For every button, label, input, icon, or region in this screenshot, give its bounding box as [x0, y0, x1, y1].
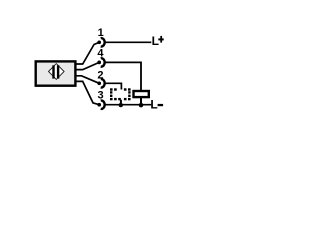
svg-text:L: L [150, 98, 157, 112]
load R2 (dashed optional rectangle) [110, 88, 131, 100]
svg-text:L: L [152, 34, 159, 48]
sensor symbol left bar [52, 65, 54, 78]
wire load R1 to L- rail [140, 98, 142, 105]
wire sensor to pin 2 [76, 76, 99, 84]
svg-text:4: 4 [97, 48, 104, 60]
wire load R2 to L- rail [120, 100, 122, 105]
pin 4 contact [97, 58, 104, 66]
svg-text:1: 1 [98, 27, 104, 39]
label L+ [152, 34, 164, 48]
junction dot at R1 / L- rail [139, 103, 144, 108]
wire pin 2 to load R2 [105, 83, 121, 89]
wire pin 3 to L- [105, 104, 151, 106]
label L- [150, 98, 163, 112]
sensor symbol right bar [57, 65, 59, 78]
wire sensor to pin 4 [76, 62, 99, 69]
wire sensor to pin 3 [76, 81, 99, 104]
pin 3 contact [97, 101, 104, 109]
sensor symbol diamond [49, 64, 65, 80]
junction dot at R2 / L- rail [119, 103, 123, 107]
sensor S1 (proximity switch body) [36, 61, 76, 85]
pin 2 contact [97, 79, 104, 87]
pin 1 contact [97, 38, 104, 46]
wire pin 4 to load R1 [105, 62, 141, 90]
wire pin 1 to L+ [105, 41, 151, 43]
wire sensor to pin 1 [76, 42, 99, 64]
svg-text:3: 3 [97, 90, 103, 102]
svg-text:2: 2 [97, 70, 103, 82]
load R1 (solid rectangle) [134, 91, 149, 97]
